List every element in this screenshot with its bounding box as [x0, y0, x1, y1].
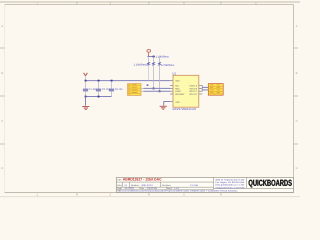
connector J2 [208, 84, 223, 96]
svg-text:V1.7x86: V1.7x86 [190, 184, 199, 187]
junction dot SCL pull-up [153, 88, 155, 90]
junction dot SDA pull-up [159, 90, 161, 92]
title block [116, 177, 293, 193]
power symbol VCC (pull-ups) [147, 50, 151, 57]
svg-text:SDA: SDA [175, 87, 180, 90]
svg-text:Title:: Title: [117, 179, 122, 182]
svg-text:1.10kOhms: 1.10kOhms [134, 64, 148, 67]
pin U1 LDAC [170, 90, 173, 92]
IC U1 body [172, 72, 199, 111]
svg-text:RDY/BSY: RDY/BSY [175, 93, 185, 96]
svg-text:C1 104: C1 104 [89, 88, 97, 91]
svg-text:D: D [296, 166, 298, 170]
svg-text:VOUT A: VOUT A [189, 85, 197, 88]
pin U1 SCL [170, 85, 173, 87]
pin U1 SDA [170, 87, 173, 89]
svg-text:C: C [1, 119, 3, 123]
wire cap bottom rail [86, 96, 112, 98]
svg-text:C:\Users\QB\Documents\Quickboa: C:\Users\QB\Documents\Quickboards\Projec… [119, 190, 238, 193]
svg-text:A: A [1, 24, 3, 28]
pin J1 SCL [141, 87, 144, 89]
pin U1 VOUTA [199, 85, 203, 87]
svg-text:www.quickboards.us +1 702: www.quickboards.us +1 702 [215, 184, 245, 187]
svg-text:VSS: VSS [175, 101, 180, 104]
wire SCL [144, 87, 171, 89]
svg-text:ABRD12617 - 12bit DAC: ABRD12617 - 12bit DAC [123, 178, 162, 182]
capacitor C1 [83, 81, 97, 96]
svg-text:Las Vegas, NV 89103 USA: Las Vegas, NV 89103 USA [215, 181, 245, 184]
ground GND1 [82, 107, 89, 110]
junction dots on VDD rail [85, 80, 113, 82]
wire pull-up top bar [147, 56, 155, 58]
svg-text:Number:: Number: [131, 184, 140, 187]
ground GND2 [160, 106, 167, 109]
resistor R2 [152, 57, 154, 89]
svg-text:Size:: Size: [117, 184, 122, 187]
svg-text:D: D [1, 166, 3, 170]
wire VOUTC to J2 [202, 89, 208, 91]
svg-text:A: A [296, 24, 298, 28]
svg-text:B: B [1, 71, 3, 75]
junction dot on bar [153, 56, 155, 58]
wire VOUTB to J2 [202, 86, 208, 88]
pin U1 VDD [170, 80, 173, 82]
wire VSS to ground [164, 102, 170, 106]
svg-text:C3 104: C3 104 [115, 88, 123, 91]
pin U1 VSS [170, 101, 173, 103]
svg-text:MCP4728A0-E/UN: MCP4728A0-E/UN [173, 107, 196, 111]
svg-text:VOUT C: VOUT C [189, 90, 197, 93]
pin U1 RDY [170, 93, 173, 95]
capacitor C3 [109, 81, 123, 96]
capacitor C2 [96, 81, 110, 96]
resistor R1 [147, 57, 149, 81]
pin J1 SDA [141, 90, 144, 92]
svg-text:VDD: VDD [175, 80, 180, 83]
svg-text:VOUT D: VOUT D [189, 93, 197, 96]
svg-text:info@quickboards.us 555-0199: info@quickboards.us 555-0199 [215, 186, 245, 189]
net marker [147, 84, 149, 86]
resistor R3 [158, 57, 160, 92]
svg-text:4035 W Tropicana Ave S-103: 4035 W Tropicana Ave S-103 [215, 179, 245, 182]
svg-text:B: B [296, 71, 298, 75]
svg-text:Revision:: Revision: [162, 184, 171, 187]
svg-text:BRD-02421: BRD-02421 [142, 184, 154, 187]
svg-text:4.70kOhms: 4.70kOhms [161, 64, 175, 67]
pin U1 VOUTC [199, 90, 203, 92]
wire to ground [85, 97, 87, 106]
junction dots bottom rail [85, 96, 100, 98]
power flag VCC (cap bank) [84, 73, 88, 81]
svg-text:VOUT B: VOUT B [189, 87, 197, 90]
svg-text:U1: U1 [172, 72, 176, 76]
pin U1 VOUTB [199, 87, 203, 89]
pin U1 VOUTD [199, 93, 203, 95]
wire output vertical [201, 85, 203, 91]
svg-text:C: C [296, 119, 298, 123]
wire SDA [144, 90, 171, 92]
svg-text:LDAC: LDAC [175, 90, 181, 93]
connector J1 [128, 84, 142, 96]
wire VDD rail [86, 80, 171, 82]
svg-text:1.10kOhms: 1.10kOhms [156, 55, 170, 58]
